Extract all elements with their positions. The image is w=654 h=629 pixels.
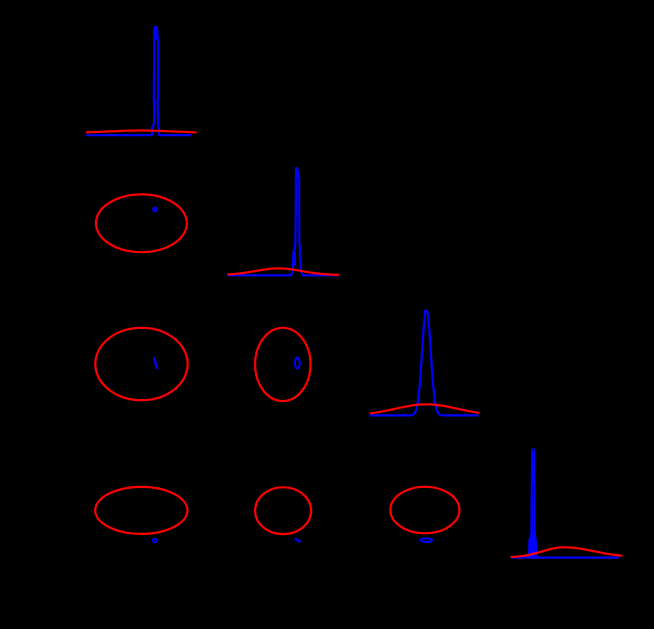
panel (3,2) red ellipse [255,328,310,401]
panel (2,1) red 2-sigma ellipse [96,194,187,252]
panel (2,2) blue spike right side [299,178,303,276]
panel (4,1) red ellipse [95,487,187,534]
panel (2,2) blue spike left side [291,178,296,276]
panel (4,2) blue contour dash [295,539,301,542]
panel (3,1) red ellipse [95,328,187,400]
panel (3,1) blue contour dash [154,358,157,370]
panel (2,2) blue KDE baseline left [228,274,291,276]
panel (4,4) red KDE curve [511,547,623,557]
panel (3,3) blue KDE peak [370,311,479,416]
panel (1,1) blue KDE baseline right [160,134,192,136]
panel (2,2) blue spike left inner ridge [294,252,296,266]
panel (4,3) red ellipse [390,487,459,533]
panel (4,2) red ellipse [255,487,311,534]
panel (1,1) blue spike right side [158,39,160,136]
panel (1,1) blue spike apex cap [153,26,159,40]
panel (4,1) blue contour dot [153,539,157,542]
panel (4,4) blue KDE baseline [511,556,619,558]
panel (2,2) blue spike apex cap [295,167,300,179]
panel (4,4) spike inner slit [532,486,534,530]
panel (2,2) red KDE curve [227,268,339,274]
panel (3,2) blue mini ellipse [295,358,300,369]
panel (4,4) blue KDE spike (solid column) [527,448,538,559]
panel (4,3) blue mini ellipse [421,538,432,542]
panel (1,1) blue KDE baseline left [86,134,151,136]
panel (1,1) blue spike left side [152,39,154,136]
panel (3,3) red KDE curve [370,404,480,413]
panel (2,1) blue contour dot [153,208,157,212]
panel (2,2) blue KDE baseline right [303,274,338,276]
panel (1,1) red KDE curve (broad, flat) [86,131,197,133]
